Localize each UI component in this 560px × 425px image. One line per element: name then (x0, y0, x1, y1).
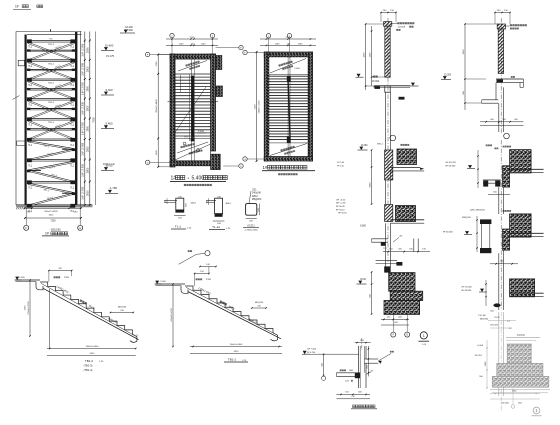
L-detail right dim (367, 346, 369, 376)
detail A foundation block bottom (384, 301, 420, 315)
svg-text:TB1-2: TB1-2 (48, 44, 55, 46)
right plan title underline (262, 170, 315, 172)
left plan stairwell wall fill (191, 76, 194, 138)
dim tick (84, 138, 86, 140)
tick (485, 121, 487, 123)
beam TL1 left at level 6 (27, 138, 32, 142)
detail A section circle (390, 135, 396, 141)
detail A parapet wall hatched (385, 26, 390, 77)
stair detail 2 top dim 150 (195, 273, 209, 275)
detail B wall lines upper (498, 103, 500, 132)
left plan axis stub right top (216, 47, 239, 49)
tick (406, 319, 408, 321)
detail A roof level text (373, 76, 378, 78)
left plan inner boundary (175, 59, 211, 161)
right plan axis line vertical 2 (289, 38, 291, 58)
right plan axis stub left bottom (247, 158, 264, 160)
L-detail arrow note (390, 351, 394, 353)
left plan axis bubble top 1 (170, 33, 174, 37)
detail A wall centerline upper (387, 18, 389, 155)
svg-text:±0.00: ±0.00 (106, 163, 113, 167)
svg-text:TB1-2: TB1-2 (48, 122, 55, 124)
svg-text:9F 48.960: 9F 48.960 (461, 290, 472, 292)
mid landing beam left 5 (27, 128, 30, 130)
left plan annotation text up (185, 61, 199, 67)
tick (383, 319, 385, 321)
tick (80, 207, 82, 209)
dim tick (84, 59, 86, 61)
right plan axis stub left top (247, 52, 264, 54)
level mark 15.400 (101, 50, 114, 52)
right plan axis bubble top 1 (266, 34, 270, 38)
dim tick (89, 138, 91, 140)
tick (24, 217, 26, 219)
beam TL1 right at level 6 (70, 138, 75, 142)
svg-text:3.6F 17.905: 3.6F 17.905 (82, 142, 85, 155)
TL-1a bottom block (215, 214, 223, 217)
detail A roof edge beam blob (375, 86, 381, 89)
svg-text:1500: 1500 (363, 52, 365, 58)
detail B roof right step (519, 83, 521, 88)
tick (199, 266, 201, 268)
stair section right wall (75, 32, 77, 205)
svg-text:1#: 1# (45, 232, 49, 236)
svg-text:3.6F 17.905: 3.6F 17.905 (82, 163, 85, 176)
tick (256, 51, 258, 53)
svg-text:9F 59.460: 9F 59.460 (445, 166, 456, 168)
svg-text:45°: 45° (399, 236, 402, 238)
L-detail beam blob (355, 373, 360, 378)
tick (371, 271, 373, 273)
tick (266, 38, 268, 40)
detail B roof slab top (496, 78, 523, 80)
beam TL1 left at level 8 (27, 180, 32, 184)
detail B floor2 slab top (510, 232, 544, 234)
TL-1 beam outline (176, 198, 184, 212)
stair detail 2 annotation circle (205, 251, 210, 256)
tick (323, 375, 324, 376)
left plan stairwell end blob (191, 138, 195, 142)
ground slab line (16, 204, 93, 206)
stair detail 1 mid dim line (111, 312, 134, 314)
L-detail bottom dim line2 (336, 398, 370, 400)
detail B floor1 note above (503, 146, 511, 148)
tick (371, 166, 373, 168)
stair detail 2 mid dim line (252, 307, 266, 309)
svg-text:WF +2.85: WF +2.85 (336, 203, 346, 205)
svg-text:2800: 2800 (87, 146, 90, 152)
left plan bottom-right block (211, 154, 221, 169)
svg-text:G: G (244, 159, 246, 161)
detail A found beam black (384, 266, 390, 272)
svg-text:TB1-2: TB1-2 (228, 357, 237, 361)
stair detail 2 soffit (188, 292, 281, 339)
tick (135, 348, 137, 350)
svg-text:260x17=4520: 260x17=4520 (44, 211, 58, 213)
chevron flight lower bay 6 (28, 149, 75, 160)
stair detail 2 label underline (224, 361, 248, 363)
beam TL1 right at level 8 (70, 180, 75, 184)
svg-text:2: 2 (536, 409, 538, 413)
tick (69, 207, 71, 209)
tick (511, 263, 512, 264)
level mark 9.400 (101, 94, 114, 96)
left plan axis stub left bottom (150, 161, 170, 163)
tick (477, 155, 478, 156)
stair detail 2 landing line2 (155, 285, 181, 287)
detail A floor2 slab top (390, 219, 424, 221)
stair detail 1 vertical line (49, 289, 51, 349)
faded bottom dim line2 (490, 398, 540, 400)
detail B level mark3 (479, 291, 487, 293)
svg-text:3000: 3000 (87, 190, 90, 196)
svg-text:150 200: 150 200 (490, 325, 499, 327)
left plan stair treads (175, 74, 211, 136)
tick (310, 45, 312, 47)
left wall sill block lower (17, 141, 25, 146)
tick (29, 279, 31, 281)
level mark 0.00 (101, 170, 114, 172)
detail A cap note line3 (396, 29, 400, 31)
tick (48, 270, 50, 272)
stair detail 1 steps (40, 282, 132, 334)
right plan upper landing break (269, 74, 308, 76)
tick (193, 38, 195, 40)
right plan left wall (264, 52, 269, 161)
stair detail 1 bottom dim line (47, 348, 136, 350)
left plan leader vertical upper (180, 75, 182, 92)
right plan axis bubble left top (243, 50, 247, 54)
tick (340, 394, 341, 395)
stair detail 2 nose line (186, 287, 275, 334)
tick (133, 312, 135, 314)
faded foundation block top (507, 344, 531, 363)
detail B left beam blob2 (495, 181, 500, 187)
TL-1a bottom dim line (213, 220, 225, 222)
svg-text:2800: 2800 (87, 105, 90, 111)
stair detail 2 flight note2 (219, 300, 227, 305)
left plan section cut line (168, 101, 219, 103)
svg-text:G: G (406, 334, 408, 337)
axis extension left (25, 205, 27, 225)
stair detail 2 level triangle (155, 283, 162, 285)
svg-text:GF +3.00: GF +3.00 (336, 200, 346, 202)
tick (417, 251, 419, 253)
right plan stairwell left edge (287, 57, 289, 157)
detail A beam blob (381, 242, 386, 245)
tick (365, 394, 366, 395)
detail A zero level mark (357, 283, 367, 285)
svg-text:1150: 1150 (201, 44, 206, 46)
svg-text:3.6F 17.905: 3.6F 17.905 (82, 43, 85, 56)
svg-text:±0.00: ±0.00 (360, 279, 366, 281)
detail A roof slab left end (373, 86, 375, 88)
tick (395, 12, 397, 14)
svg-text:11.060: 11.060 (361, 145, 369, 147)
detail B dim ticks left3 (485, 280, 487, 306)
svg-text:1190: 1190 (275, 44, 280, 46)
stair detail 1 soffit line (43, 288, 139, 339)
right landing stub bay 6 (62, 148, 75, 150)
tick (464, 78, 466, 80)
left landing stub bay 7 (27, 170, 41, 172)
right plan annotation text up (278, 61, 292, 67)
faded axis ext (512, 388, 514, 404)
right landing stub bay 8 (62, 192, 75, 194)
faded bubble underline (532, 415, 542, 417)
faded mid slab2 (506, 339, 536, 341)
detail A top dim line (381, 12, 396, 14)
detail A detail bubble underline (419, 340, 430, 342)
stair detail 1 flight note2 (79, 299, 87, 305)
chevron flight lower bay 8 (28, 193, 75, 205)
detail B centerline (500, 18, 502, 133)
detail B dim ticks left (477, 150, 479, 188)
left plan stairwell left edge (190, 59, 192, 162)
svg-text:7200: 7200 (50, 221, 56, 223)
mid landing slab between level 3 and 4 (27, 88, 75, 90)
TL-1a left dim (208, 198, 210, 205)
stair flight diagonal down-left bay 3 (28, 81, 75, 99)
svg-text:GF 53.260: GF 53.260 (461, 286, 472, 288)
stair detail 2 landing line (155, 283, 185, 285)
detail A axis bubble 2 (405, 332, 410, 337)
detail B floor1 slab bottom (510, 172, 544, 174)
mid landing slab between level 1 and 2 (27, 49, 75, 51)
tick (365, 85, 367, 87)
right plan stairwell dark top (287, 76, 291, 82)
tick (371, 30, 373, 32)
tick (368, 358, 369, 359)
L-detail bottom dim line1 (336, 393, 370, 395)
left landing beam bay 7 (27, 170, 30, 173)
stair section left wall (25, 35, 27, 206)
detail A wall line left upper (385, 92, 387, 150)
floor slab level 2 (27, 59, 75, 61)
dim tick (84, 181, 86, 183)
beam TL1 left at level 7 (27, 158, 32, 162)
L-detail left level mark (302, 353, 309, 355)
mid landing beam right 3 (72, 88, 75, 90)
svg-text:2800: 2800 (87, 85, 90, 91)
left outer line break mark (13, 96, 20, 100)
left plan small circles (183, 142, 186, 145)
faded detail group (475, 312, 550, 416)
detail B floor2 note above (503, 210, 511, 212)
tick (368, 348, 369, 349)
stair detail 2 steps (185, 286, 273, 333)
axis bubble G (78, 225, 83, 230)
detail B roof slope note (511, 76, 515, 78)
tick (266, 45, 268, 47)
detail A floor1 slab top (390, 167, 421, 169)
section bottom dim line 1 (25, 207, 81, 209)
right plan lower landing break (269, 142, 308, 144)
tick (371, 203, 373, 205)
TL-1 left dim (166, 198, 168, 204)
faded centerline (500, 312, 502, 412)
faded small lines (488, 320, 516, 322)
GZ1 bottom dim line (246, 217, 257, 219)
detail B floor2 block main (510, 214, 531, 237)
stair detail 1 level triangle (15, 279, 22, 281)
right plan bottom wall (264, 157, 312, 161)
detail B level mark2 (464, 234, 472, 236)
right plan left dim line (256, 52, 258, 161)
detail B floor3 slab bottom (510, 296, 544, 298)
faded axis circle small (511, 405, 515, 409)
stair detail 1 nose line (41, 283, 134, 335)
detail B left beam blob1 (483, 181, 488, 187)
svg-text:4Ø14: 4Ø14 (225, 203, 231, 205)
tick (477, 169, 478, 170)
dim tick (89, 118, 91, 120)
svg-text:2800: 2800 (87, 66, 90, 72)
svg-text:PTB1: PTB1 (64, 277, 70, 279)
tick (171, 45, 173, 47)
beam TL1 right at level 2 (70, 59, 75, 63)
svg-text:260x17=4420: 260x17=4420 (258, 100, 260, 113)
svg-text:9F 48.060: 9F 48.060 (443, 232, 454, 234)
tick (403, 251, 405, 253)
detail A left dim line outer (365, 24, 367, 90)
detail A axis bubble 1 (391, 332, 396, 337)
svg-text:GF 50.95: GF 50.95 (338, 213, 348, 215)
tick (310, 38, 312, 40)
faded foundation block mid (497, 363, 543, 376)
svg-text:15.400: 15.400 (105, 43, 114, 47)
svg-text:15.300: 15.300 (372, 81, 380, 83)
L-detail 45 leader (366, 372, 371, 375)
stair detail 2 annotation text (188, 250, 192, 252)
left plan top dim line 2 (166, 44, 218, 46)
svg-text:(TB1-3): (TB1-3) (84, 363, 93, 367)
detail B column beam bottom (480, 248, 491, 253)
tick (371, 283, 373, 285)
TL-1 label underline (171, 228, 186, 230)
tick (371, 149, 373, 151)
svg-text:3.6F 17.905: 3.6F 17.905 (82, 82, 85, 95)
left plan axis stub left top (150, 54, 170, 56)
svg-text:1500: 1500 (463, 49, 465, 55)
dim tick (84, 40, 86, 42)
tick (208, 273, 210, 275)
svg-text:175x10=1750: 175x10=1750 (171, 308, 173, 322)
GZ1 column outline (246, 204, 257, 216)
detail B dim ticks left2 (476, 216, 478, 252)
svg-text:2800: 2800 (87, 167, 90, 173)
left plan left dim line (157, 55, 159, 167)
tick (476, 233, 477, 234)
mid landing beam right 2 (72, 69, 75, 71)
tick (171, 38, 173, 40)
stair detail 1 landing line (15, 279, 40, 281)
detail A slab left beam bottom (372, 241, 389, 243)
L-detail wall left line (358, 346, 360, 388)
svg-text:1150: 1150 (179, 44, 184, 46)
detail A lower slab (376, 260, 397, 262)
detail A under-slab beam blob (399, 97, 405, 100)
tick (380, 12, 382, 14)
svg-text:3.6F 17.905: 3.6F 17.905 (82, 186, 85, 199)
stair flight diagonal down-right bay 3 (28, 81, 75, 99)
L-detail left vdim (323, 354, 325, 375)
mid landing slab between level 4 and 5 (27, 108, 75, 110)
svg-text:TB1-2: TB1-2 (48, 63, 55, 65)
beam TL1 left at level 5 (27, 117, 32, 121)
svg-text:X-X: X-X (184, 136, 188, 138)
detail A floor2 wall hatch (385, 205, 393, 222)
floor slab level 5 (27, 118, 75, 120)
svg-text:TB1-2: TB1-2 (48, 102, 55, 104)
right plan inner boundary (269, 57, 308, 157)
left plan annotation arrow down (177, 142, 208, 153)
tick (323, 353, 324, 354)
svg-text:3.6F 17.905: 3.6F 17.905 (82, 122, 85, 135)
svg-text:1: 1 (423, 334, 425, 338)
svg-text:TB1-2: TB1-2 (48, 83, 55, 85)
detail A roof level mark (356, 76, 364, 78)
left wall sill block (18, 60, 24, 66)
svg-text:3000: 3000 (369, 182, 371, 188)
detail B parapet wall hatched (498, 29, 503, 74)
detail A parapet cap (384, 22, 392, 27)
dim tick (89, 40, 91, 42)
detail B wall lines mid (498, 187, 500, 214)
svg-text:TB1-2: TB1-2 (85, 359, 94, 363)
left plan top wall (170, 54, 216, 59)
right plan axis bubble left bottom (243, 157, 247, 161)
chevron flight upper bay 8 (28, 183, 75, 193)
stair detail 1 landing line 2 (15, 281, 36, 283)
svg-text:9F 5.10: 9F 5.10 (337, 165, 345, 167)
left plan annotation arrow up (178, 61, 207, 72)
svg-text:- 1B1/1B1: - 1B1/1B1 (49, 228, 61, 232)
detail A roof slab bottom (376, 87, 410, 89)
stair detail 2 annotation stub (196, 252, 205, 255)
svg-text:PTB1: PTB1 (206, 279, 212, 281)
svg-text:GZ1: GZ1 (252, 189, 257, 191)
detail A axis ext lines (392, 314, 394, 331)
svg-text:GF 45.1: GF 45.1 (475, 355, 483, 357)
tick (365, 342, 366, 343)
svg-text:G: G (79, 226, 81, 230)
beam TL1 right at level 5 (70, 117, 75, 121)
svg-text:Ø8@200: Ø8@200 (462, 217, 472, 219)
faded left dim (486, 340, 488, 388)
tick (464, 23, 466, 25)
TL-1 bottom blob (176, 210, 184, 213)
svg-text:9F 6.760: 9F 6.760 (307, 352, 316, 354)
svg-text:2Ø12 Ø8@200: 2Ø12 Ø8@200 (470, 210, 486, 212)
svg-text:2800: 2800 (87, 47, 90, 53)
level mark 5.400 (101, 128, 114, 130)
detail B floor1 block small (503, 166, 510, 187)
detail B left beam slab (483, 179, 501, 181)
detail A wall lines lower (385, 223, 387, 272)
detail B dim mid line2 (480, 124, 523, 126)
section right dimension line inner (84, 32, 86, 206)
faded note (517, 334, 525, 336)
tick (29, 335, 31, 337)
floor slab level 6 (27, 138, 75, 140)
stair flight diagonal down-right bay 2 (28, 61, 75, 79)
detail B lower roof slab (482, 99, 499, 101)
parapet top center tick (50, 29, 52, 31)
right plan title note (278, 173, 297, 175)
beam TL1 left at level 4 (27, 97, 32, 101)
floor slab level 1 (27, 40, 75, 42)
